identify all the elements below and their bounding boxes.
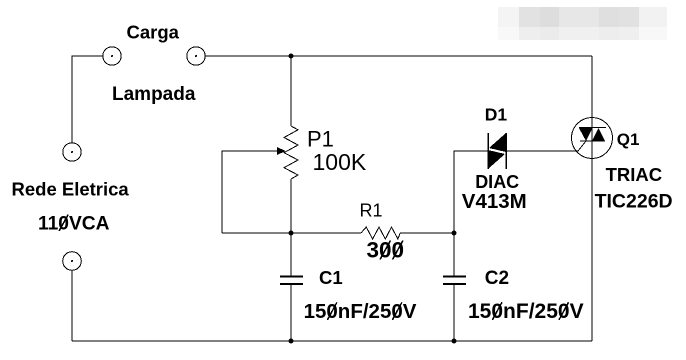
- svg-text:C1: C1: [319, 267, 343, 288]
- diac D1 body: [488, 133, 506, 169]
- node C junction: [452, 231, 457, 236]
- svg-text:110VCA: 110VCA: [38, 214, 110, 235]
- svg-text:100K: 100K: [313, 149, 367, 175]
- terminal Rede top: [63, 143, 81, 161]
- svg-text:P1: P1: [307, 127, 334, 152]
- wire top rail: [205, 55, 592, 57]
- svg-text:C2: C2: [485, 268, 509, 289]
- wire left-top from Carga terminal to left drop: [72, 56, 103, 143]
- node D junction bottom left: [289, 339, 294, 344]
- node A junction top: [289, 54, 294, 59]
- terminal Rede bottom: [63, 252, 82, 271]
- resistor R1 body: [361, 227, 400, 239]
- svg-text:Lampada: Lampada: [112, 84, 196, 105]
- svg-text:D1: D1: [485, 105, 508, 125]
- watermark: [498, 7, 667, 40]
- svg-text:R1: R1: [360, 200, 383, 220]
- capacitor C1 plates: [280, 277, 303, 285]
- wire C2 bottom lead: [453, 284, 455, 341]
- svg-text:Q1: Q1: [617, 130, 640, 149]
- wire node C up to DIAC: [454, 151, 488, 233]
- terminal Carga right: [187, 47, 205, 65]
- wire node B horizontal to R1: [222, 232, 361, 234]
- svg-text:150nF/250V: 150nF/250V: [468, 300, 584, 323]
- node B junction: [289, 231, 294, 236]
- wire C2 top lead: [453, 233, 455, 277]
- svg-text:TRIAC: TRIAC: [606, 164, 663, 185]
- svg-text:TIC226D: TIC226D: [595, 191, 673, 213]
- wire right vertical (TRIAC main terminals): [591, 56, 593, 341]
- wire P1 bottom to node B: [290, 179, 292, 276]
- wire bottom rail: [72, 340, 592, 342]
- node E junction bottom right: [452, 339, 457, 344]
- potentiometer P1 100K body: [284, 126, 298, 179]
- wire left drop from Rede terminal to bottom rail: [71, 270, 73, 341]
- svg-text:V413M: V413M: [462, 190, 527, 213]
- wire wiper arm left leg: [222, 151, 277, 233]
- wire DIAC to TRIAC gate: [506, 150, 572, 152]
- wire C1 bottom lead: [290, 284, 292, 341]
- svg-text:150nF/250V: 150nF/250V: [304, 300, 417, 323]
- svg-text:DIAC: DIAC: [475, 172, 519, 192]
- terminal Carga left: [103, 47, 121, 65]
- potentiometer P1 wiper arrow: [277, 147, 286, 155]
- capacitor C2 plates: [443, 277, 466, 285]
- svg-text:Carga: Carga: [127, 22, 180, 43]
- triac Q1 body: [572, 118, 613, 159]
- wire P1 top feed: [290, 56, 292, 126]
- wire R1 right to node C: [400, 232, 454, 234]
- svg-text:Rede Eletrica: Rede Eletrica: [12, 179, 130, 200]
